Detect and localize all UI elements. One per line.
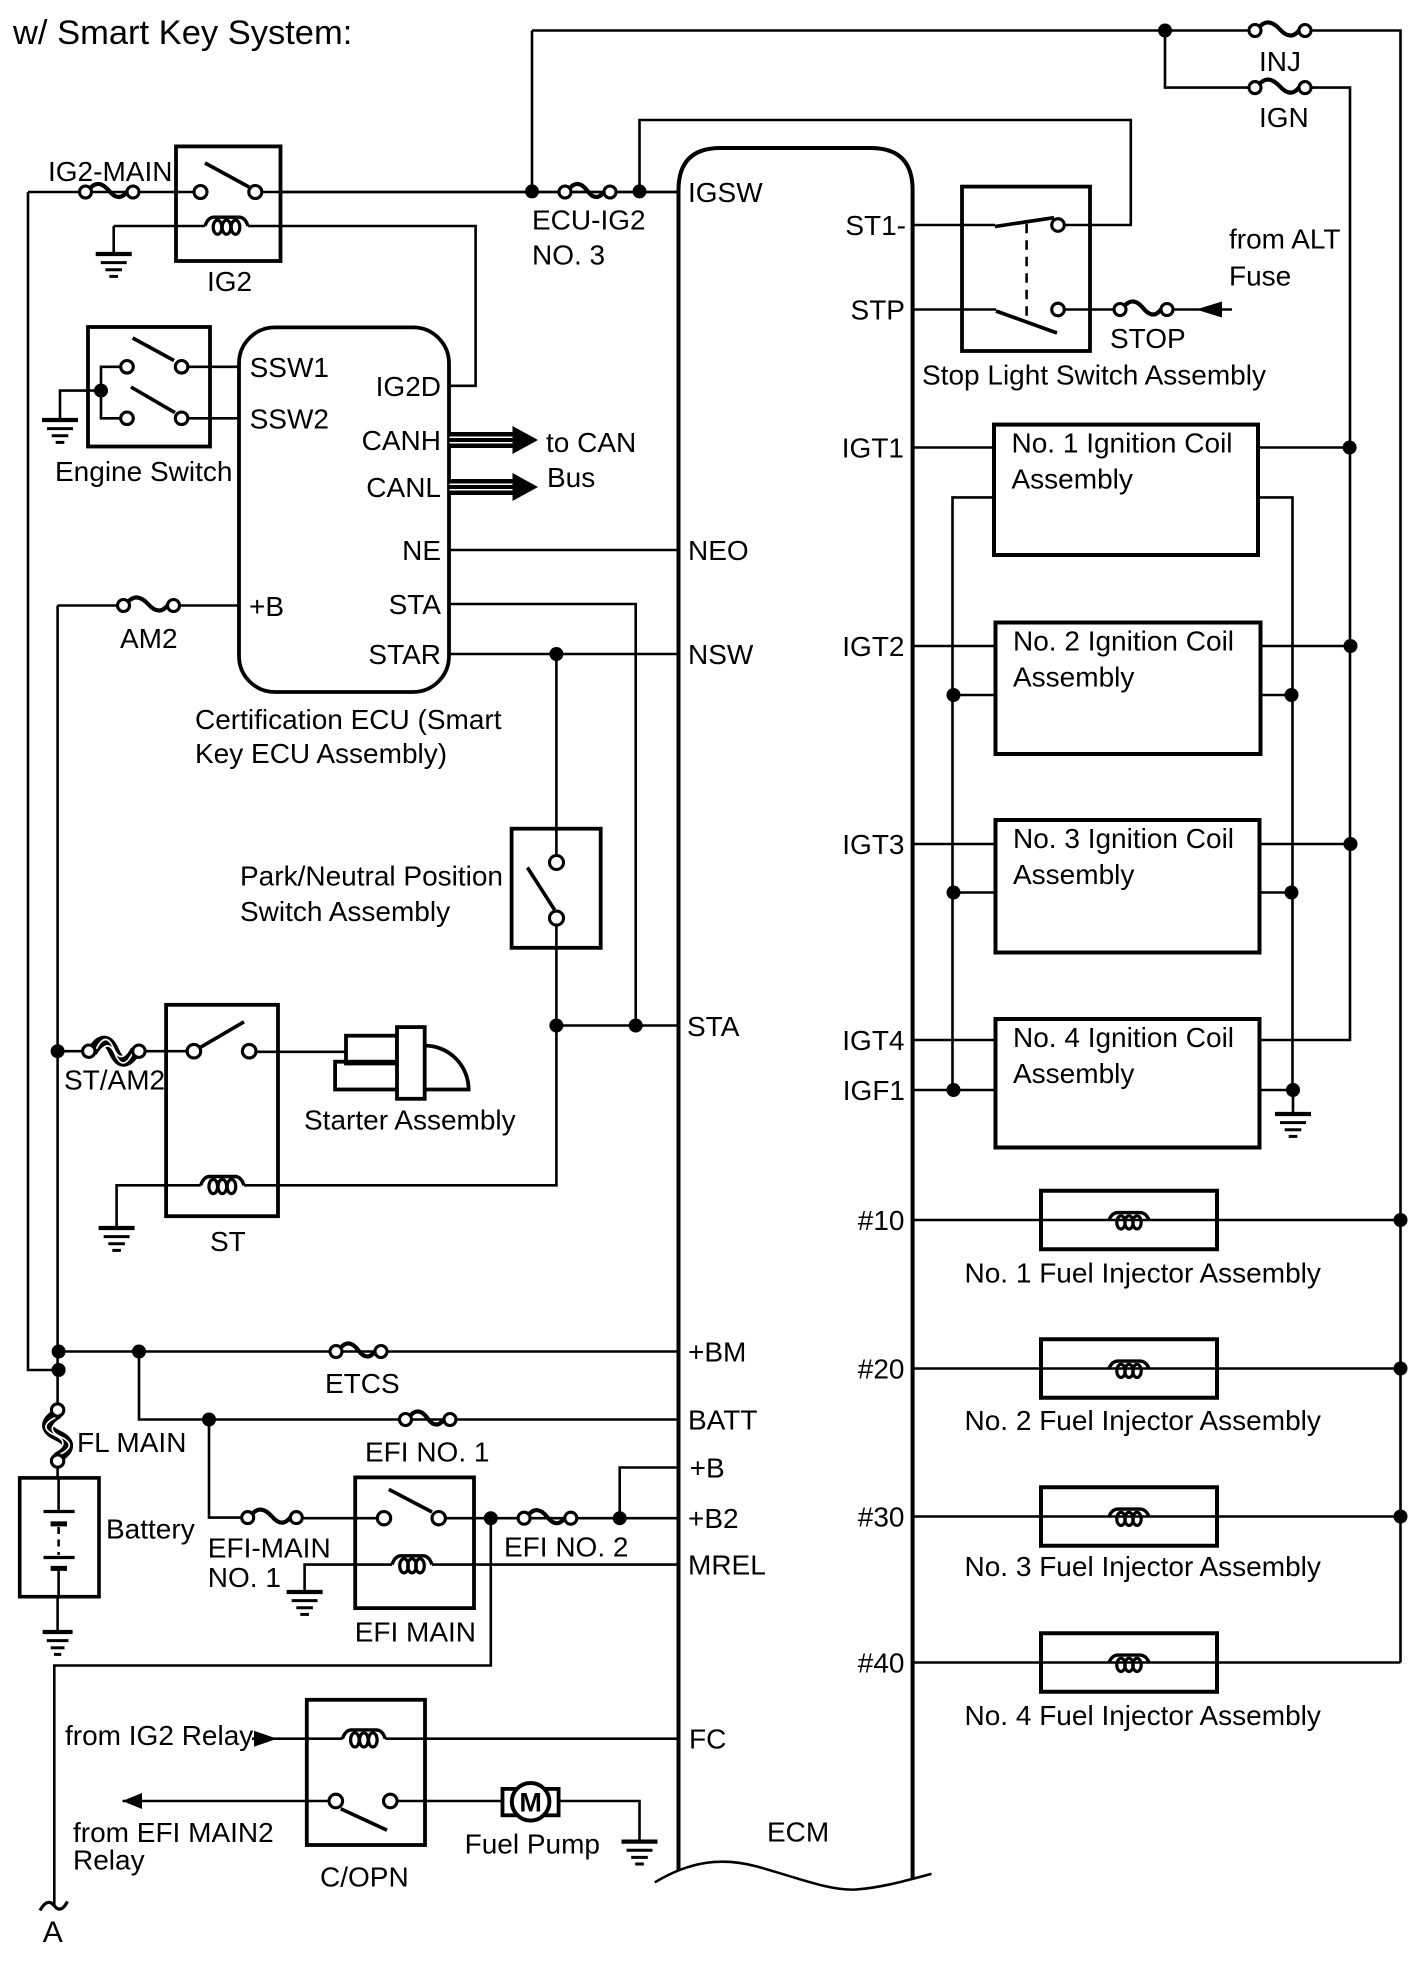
node +B2 left <box>484 1511 498 1525</box>
label Certification ECU line2 <box>195 738 447 769</box>
ground IG2 <box>96 254 132 276</box>
relay IG2 blade <box>205 163 249 187</box>
switch Engine Switch box <box>88 327 210 447</box>
pin label +B ECM <box>690 1453 725 1484</box>
pin label IGT1 <box>842 433 904 464</box>
fuse STOP <box>1114 301 1173 315</box>
label Assembly 1 <box>1012 464 1133 495</box>
svg-text:STA: STA <box>389 589 442 620</box>
pin label STAR <box>368 639 441 670</box>
wire IG2-MAIN row right of relay contact <box>262 191 679 194</box>
svg-text:from ALT: from ALT <box>1229 224 1341 255</box>
ground EFI MAIN <box>287 1592 323 1614</box>
pin label IGT3 <box>842 829 904 860</box>
relay C/OPN blade <box>341 1809 387 1831</box>
svg-text:Certification ECU (Smart: Certification ECU (Smart <box>195 704 502 735</box>
engine switch contact 1L <box>121 361 134 374</box>
svg-text:to CAN: to CAN <box>546 427 636 458</box>
wire coil1 right 2nd pin to ground bus <box>1258 497 1293 1090</box>
label IG2 <box>207 266 252 297</box>
wire coil3 right top to IGN bus <box>1260 843 1351 846</box>
svg-text:EFI NO. 2: EFI NO. 2 <box>504 1532 628 1563</box>
pin label ST1- <box>845 210 906 241</box>
svg-text:Starter Assembly: Starter Assembly <box>304 1105 516 1136</box>
wire top INJ to right corner then bus down <box>1311 31 1401 1663</box>
battery center bottom lead <box>57 1571 60 1597</box>
wire link to ST relay contact <box>145 1050 187 1053</box>
wire fuel pump to ground <box>559 1801 640 1842</box>
motor fuel pump frame <box>503 1789 559 1815</box>
label Fuse <box>1229 261 1291 292</box>
node coil1 IGN bus <box>1343 441 1357 455</box>
label to CAN <box>546 427 636 458</box>
wire A drop line <box>54 1518 491 1906</box>
battery box <box>20 1478 99 1597</box>
fuse ECU-IG2 NO. 3 <box>559 184 616 198</box>
ground ST relay <box>99 1228 135 1250</box>
relay IG2 box <box>176 146 281 261</box>
node +B2 right <box>613 1511 627 1525</box>
ground battery <box>43 1632 73 1654</box>
label ECU-IG2 <box>532 205 646 236</box>
svg-text:Assembly: Assembly <box>1012 464 1133 495</box>
fuel injector 2 box <box>1041 1339 1217 1398</box>
wire BATT branch <box>139 1352 679 1420</box>
ignition coil assembly 2 box <box>996 623 1261 755</box>
label from EFI MAIN2 <box>73 1817 274 1848</box>
svg-text:CANL: CANL <box>366 472 441 503</box>
wire C/OPN coil to FC <box>385 1737 678 1740</box>
svg-text:STP: STP <box>851 295 905 326</box>
svg-text:MREL: MREL <box>688 1550 766 1581</box>
svg-text:FL MAIN: FL MAIN <box>77 1427 186 1458</box>
label EFI NO. 2 <box>504 1532 628 1563</box>
node +BM left <box>52 1345 66 1359</box>
fuse INJ <box>1249 22 1311 36</box>
svg-text:BATT: BATT <box>688 1405 757 1436</box>
label NO. 1 <box>208 1562 281 1593</box>
label No. 4 Fuel Injector Assembly <box>965 1700 1321 1731</box>
relay EFI MAIN box <box>355 1477 474 1608</box>
label EFI MAIN <box>355 1617 476 1648</box>
battery plate short 2 <box>51 1566 67 1571</box>
wire vertical ECU-IG2 to top <box>531 31 534 193</box>
svg-text:NE: NE <box>402 535 441 566</box>
svg-text:NEO: NEO <box>688 535 749 566</box>
wire +B to AM2 <box>180 604 240 607</box>
fuse IG2-MAIN <box>80 184 140 198</box>
svg-text:No. 2 Fuel Injector Assembly: No. 2 Fuel Injector Assembly <box>965 1405 1321 1436</box>
svg-text:#10: #10 <box>858 1205 905 1236</box>
label Starter Assembly <box>304 1105 516 1136</box>
pin label STP <box>851 295 905 326</box>
label No. 1 Ignition Coil <box>1012 428 1233 459</box>
relay C/OPN contact left <box>329 1794 343 1808</box>
fuse ETCS <box>330 1343 387 1357</box>
svg-text:Assembly: Assembly <box>1013 662 1134 693</box>
label Certification ECU line1 <box>195 704 502 735</box>
svg-text:STA: STA <box>687 1011 740 1042</box>
wire from EFI MAIN2 relay <box>123 1800 330 1803</box>
label No. 4 Ignition Coil <box>1013 1022 1234 1053</box>
fuse IGN <box>1249 80 1311 94</box>
label No. 2 Fuel Injector Assembly <box>965 1405 1321 1436</box>
svg-text:w/ Smart Key System:: w/ Smart Key System: <box>12 14 352 52</box>
svg-text:ECM: ECM <box>767 1817 829 1848</box>
pin label #40 <box>858 1648 905 1679</box>
switch Park/Neutral box <box>512 829 601 948</box>
svg-text:No. 2 Ignition Coil: No. 2 Ignition Coil <box>1013 626 1234 657</box>
arrow from EFI MAIN2 Relay <box>123 1793 143 1809</box>
label Relay <box>73 1845 145 1876</box>
svg-text:Battery: Battery <box>106 1514 195 1545</box>
node STA row left <box>549 1019 563 1033</box>
label ST/AM2 <box>64 1065 165 1096</box>
relay C/OPN box <box>307 1700 425 1845</box>
engine switch contact 1R <box>175 361 188 374</box>
svg-text:C/OPN: C/OPN <box>320 1862 409 1893</box>
battery plate long 2 <box>44 1556 75 1559</box>
svg-text:Relay: Relay <box>73 1845 145 1876</box>
wire injector #30 row <box>913 1515 1401 1518</box>
fuse EFI NO. 1 <box>400 1411 457 1425</box>
relay IG2 coil wire left <box>114 225 205 228</box>
node coil3 left <box>947 886 961 900</box>
svg-text:No. 4 Ignition Coil: No. 4 Ignition Coil <box>1013 1022 1234 1053</box>
svg-text:AM2: AM2 <box>120 623 178 654</box>
pin label CANH <box>362 425 441 456</box>
motor fuel pump circle <box>512 1783 550 1821</box>
relay ST contact left <box>187 1044 201 1058</box>
svg-text:#20: #20 <box>858 1354 905 1385</box>
label Assembly 2 <box>1013 662 1134 693</box>
svg-text:ETCS: ETCS <box>325 1368 400 1399</box>
label EFI NO. 1 <box>365 1437 489 1468</box>
label Park/Neutral line2 <box>240 896 450 927</box>
ignition coil assembly 1 box <box>994 425 1258 555</box>
node ST/AM2 branch <box>51 1044 65 1058</box>
wire top horizontal to INJ <box>532 29 1249 32</box>
label from ALT <box>1229 224 1341 255</box>
wire FL MAIN to battery <box>56 1467 59 1478</box>
engine switch contact 2R <box>175 412 188 425</box>
wire fuse to EFI MAIN relay <box>302 1517 377 1520</box>
pin label +B <box>249 591 284 622</box>
battery center top lead <box>57 1478 60 1510</box>
svg-text:STOP: STOP <box>1110 323 1186 354</box>
arrow CANL to CAN bus <box>450 473 539 501</box>
stop light blade top <box>995 218 1054 227</box>
wire IGT1 to coil box <box>913 446 994 449</box>
svg-text:IGT4: IGT4 <box>842 1025 904 1056</box>
svg-text:Assembly: Assembly <box>1013 1058 1134 1089</box>
wire IGT2 to coil box <box>913 645 996 648</box>
label No. 2 Ignition Coil <box>1013 626 1234 657</box>
node STA row mid <box>629 1019 643 1033</box>
label C/OPN <box>320 1862 409 1893</box>
label Engine Switch <box>55 456 232 487</box>
pin label SSW1 <box>250 352 329 383</box>
node engine switch common <box>94 384 108 398</box>
wire coil4 right 2nd pin <box>1260 1089 1294 1092</box>
node +BM branch <box>132 1345 146 1359</box>
pin label CANL <box>366 472 441 503</box>
svg-text:+B: +B <box>690 1453 725 1484</box>
wire IG2 coil to IG2D pin <box>248 226 476 386</box>
relay IG2 contact right <box>249 186 262 199</box>
wire SSW2 <box>188 417 239 420</box>
wire left vertical AM2 down to battery <box>56 606 59 1404</box>
arrow from ALT fuse <box>1196 302 1222 318</box>
relay C/OPN coil <box>342 1730 385 1747</box>
svg-text:#40: #40 <box>858 1648 905 1679</box>
label No. 3 Fuel Injector Assembly <box>965 1551 1321 1582</box>
pin label #10 <box>858 1205 905 1236</box>
wire SSW1 <box>188 365 239 368</box>
starter assembly upper rect <box>346 1036 397 1064</box>
wire +B branch <box>620 1468 679 1519</box>
label ETCS <box>325 1368 400 1399</box>
wire P/N down to STA row and ST coil <box>278 925 556 1185</box>
svg-text:CANH: CANH <box>362 425 441 456</box>
wire STA from ECU down <box>449 604 636 1026</box>
node coil4 right <box>1286 1083 1300 1097</box>
label No. 1 Fuel Injector Assembly <box>965 1258 1321 1289</box>
stop light dashed link <box>1025 224 1028 320</box>
wire STP to switch <box>913 308 996 311</box>
ground stub ignition coils <box>1292 1090 1295 1114</box>
ignition coil assembly 3 box <box>996 820 1260 953</box>
wire ST1- to switch <box>913 224 995 227</box>
wire BATT down to EFI-MAIN NO.1 <box>209 1420 242 1518</box>
svg-text:SSW2: SSW2 <box>250 404 329 435</box>
svg-text:Bus: Bus <box>547 462 595 493</box>
wire coil3 left 2nd pin <box>954 891 996 894</box>
svg-text:A: A <box>43 1916 63 1949</box>
svg-text:IG2: IG2 <box>207 266 252 297</box>
wire IGT3 to coil box <box>913 843 996 846</box>
ground stub IG2 <box>112 226 115 254</box>
svg-text:ST/AM2: ST/AM2 <box>64 1065 165 1096</box>
pin label NE <box>402 535 441 566</box>
svg-text:from IG2 Relay: from IG2 Relay <box>65 1720 253 1751</box>
fuse EFI-MAIN NO. 1 <box>242 1510 303 1524</box>
wire ST to starter <box>256 1051 346 1054</box>
svg-text:Park/Neutral Position: Park/Neutral Position <box>240 861 503 892</box>
ground ignition coils <box>1275 1114 1311 1136</box>
relay EFI MAIN contact left <box>377 1512 390 1525</box>
svg-text:Fuel Pump: Fuel Pump <box>465 1829 600 1860</box>
fuel injector 4 coil <box>1109 1655 1149 1671</box>
wire coil3 right 2nd pin <box>1260 891 1292 894</box>
svg-text:+B2: +B2 <box>688 1503 739 1534</box>
svg-text:IGT3: IGT3 <box>842 829 904 860</box>
label ST <box>210 1226 246 1257</box>
pin label #30 <box>858 1502 905 1533</box>
wire coil2 left 2nd pin <box>954 694 996 697</box>
pin label IGT4 <box>842 1025 904 1056</box>
P/N contact top <box>550 856 564 870</box>
P/N contact bottom <box>550 911 564 925</box>
P/N blade <box>527 868 554 910</box>
wire +BM row <box>59 1350 679 1353</box>
wire STA row to ECM <box>556 1024 678 1027</box>
svg-text:Fuse: Fuse <box>1229 261 1291 292</box>
svg-text:NSW: NSW <box>688 639 754 670</box>
pin label SSW2 <box>250 404 329 435</box>
wire MREL row <box>474 1563 679 1566</box>
svg-text:Key ECU Assembly): Key ECU Assembly) <box>195 738 447 769</box>
connector A squiggle <box>40 1902 67 1911</box>
svg-text:IGF1: IGF1 <box>843 1075 905 1106</box>
node injector 3 INJ bus <box>1394 1510 1408 1524</box>
svg-text:NO. 1: NO. 1 <box>208 1562 281 1593</box>
stop light contact top <box>1052 219 1065 232</box>
svg-text:+BM: +BM <box>688 1337 746 1368</box>
wire ST1- loop via top <box>640 120 1131 225</box>
relay ST box <box>166 1005 278 1216</box>
label Fuel Pump <box>465 1829 600 1860</box>
svg-text:No. 3 Ignition Coil: No. 3 Ignition Coil <box>1013 823 1234 854</box>
relay EFI MAIN coil <box>392 1556 432 1573</box>
starter assembly tall rect <box>397 1027 425 1099</box>
svg-text:from EFI MAIN2: from EFI MAIN2 <box>73 1817 274 1848</box>
svg-text:SSW1: SSW1 <box>250 352 329 383</box>
node coil2 left <box>947 688 961 702</box>
svg-text:No. 1 Fuel Injector Assembly: No. 1 Fuel Injector Assembly <box>965 1258 1321 1289</box>
node left join <box>52 1363 66 1377</box>
svg-text:+B: +B <box>249 591 284 622</box>
switch Stop Light box <box>962 187 1090 351</box>
svg-text:IGT1: IGT1 <box>842 433 904 464</box>
node coil3 right <box>1285 886 1299 900</box>
ignition coil assembly 4 box <box>996 1019 1260 1148</box>
label Bus <box>547 462 595 493</box>
wire coil1 right top to IGN bus <box>1258 446 1350 449</box>
label STOP <box>1110 323 1186 354</box>
label Battery <box>106 1514 195 1545</box>
stop light blade bottom <box>996 311 1057 333</box>
wire NE to NEO <box>449 549 679 552</box>
IC ECM bottom wave <box>655 1862 932 1890</box>
pin label NSW <box>688 639 754 670</box>
svg-text:EFI NO. 1: EFI NO. 1 <box>365 1437 489 1468</box>
relay ST blade <box>201 1022 244 1047</box>
svg-text:NO. 3: NO. 3 <box>532 240 605 271</box>
battery plate long 1 <box>44 1510 75 1513</box>
svg-text:No. 3 Fuel Injector Assembly: No. 3 Fuel Injector Assembly <box>965 1551 1321 1582</box>
relay EFI MAIN blade <box>389 1489 432 1512</box>
node junction top INJ/IGN <box>1158 24 1172 38</box>
label Assembly 4 <box>1013 1058 1134 1089</box>
wire IGF1 row <box>913 1089 996 1092</box>
pin label IG2D <box>376 371 441 402</box>
node coil2 right <box>1285 688 1299 702</box>
pin label STA <box>389 589 442 620</box>
label AM2 <box>120 623 178 654</box>
wire battery to ground <box>56 1597 59 1632</box>
wire relay to +B2 <box>445 1517 678 1520</box>
wire AM2 to left vertical <box>58 604 118 607</box>
fuel injector 1 box <box>1041 1191 1217 1250</box>
wire IGN to bus corner down to coil 4 <box>1260 88 1351 1040</box>
IC ECM outline <box>679 148 913 1878</box>
wire from IG2 relay to C/OPN coil <box>252 1737 342 1740</box>
engine switch contact 2L <box>121 412 134 425</box>
label Park/Neutral line1 <box>240 861 503 892</box>
relay ST coil wire inside <box>166 1184 278 1187</box>
node injector 1 INJ bus <box>1394 1213 1408 1227</box>
engine switch blade 1 <box>133 338 174 361</box>
relay ST coil <box>201 1177 244 1194</box>
engine switch left wiring <box>101 367 121 419</box>
label from IG2 Relay <box>65 1720 253 1751</box>
svg-text:ST1-: ST1- <box>845 210 906 241</box>
wire STP out to STOP fuse <box>1064 308 1114 311</box>
fuel injector 3 box <box>1041 1487 1217 1546</box>
fusible link FL MAIN <box>46 1404 69 1467</box>
label IG2-MAIN <box>48 156 172 187</box>
svg-text:Stop Light Switch Assembly: Stop Light Switch Assembly <box>922 360 1266 391</box>
svg-text:INJ: INJ <box>1259 46 1301 77</box>
pin label IGT2 <box>842 631 904 662</box>
pin label #20 <box>858 1354 905 1385</box>
svg-text:No. 1 Ignition Coil: No. 1 Ignition Coil <box>1012 428 1233 459</box>
relay ST contact right <box>242 1044 256 1058</box>
label EFI-MAIN <box>208 1533 331 1564</box>
arrow from IG2 Relay <box>254 1731 277 1747</box>
label FL MAIN <box>77 1427 186 1458</box>
IC Certification ECU box <box>239 327 449 692</box>
label ECM <box>767 1817 829 1848</box>
fuse EFI NO. 2 <box>518 1510 577 1524</box>
label INJ <box>1259 46 1301 77</box>
node injector 2 INJ bus <box>1394 1362 1408 1376</box>
arrow CANH to CAN bus <box>450 426 539 454</box>
wire IGT4 to coil box <box>913 1039 996 1042</box>
svg-text:IG2-MAIN: IG2-MAIN <box>48 156 172 187</box>
starter assembly lower rect <box>335 1062 400 1090</box>
label Stop Light Switch Assembly <box>922 360 1266 391</box>
pin label IGSW <box>688 177 763 208</box>
wire coil1 left 2nd pin <box>953 497 995 1090</box>
node ECU-IG2 right <box>633 184 647 198</box>
svg-text:ST: ST <box>210 1226 246 1257</box>
pin label +BM <box>688 1337 746 1368</box>
wire EFI MAIN coil to ground <box>305 1565 356 1592</box>
relay EFI MAIN contact right <box>432 1512 445 1525</box>
wire IG2-MAIN row left <box>28 191 194 194</box>
ground Engine Switch <box>42 420 78 442</box>
svg-text:No. 4 Fuel Injector Assembly: No. 4 Fuel Injector Assembly <box>965 1700 1321 1731</box>
svg-text:IGSW: IGSW <box>688 177 763 208</box>
wire injector #40 row <box>913 1661 1401 1664</box>
fuse AM2 <box>118 597 180 611</box>
svg-text:IG2D: IG2D <box>376 371 441 402</box>
fusible link ST/AM2 <box>83 1039 145 1062</box>
starter assembly arc <box>425 1046 469 1090</box>
battery plate short 1 <box>51 1521 67 1526</box>
wire injector #20 row <box>913 1367 1401 1370</box>
label IGN <box>1259 102 1309 133</box>
fuel injector 4 box <box>1041 1633 1217 1692</box>
svg-text:#30: #30 <box>858 1502 905 1533</box>
stop light contact bottom <box>1052 303 1065 316</box>
wire C/OPN to fuel pump <box>397 1800 502 1803</box>
ground fuel pump <box>622 1842 658 1864</box>
wire far-left vertical from IG2-MAIN <box>28 192 59 1370</box>
relay IG2 contact left <box>194 186 207 199</box>
